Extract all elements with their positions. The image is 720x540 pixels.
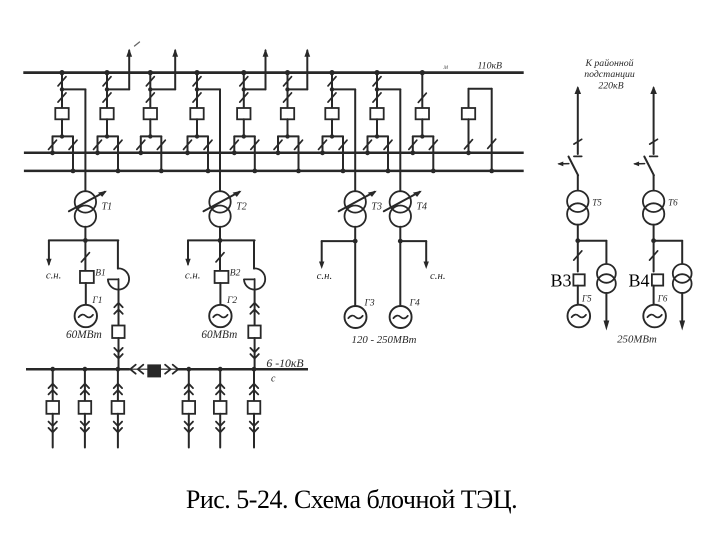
- svg-text:Т4: Т4: [417, 201, 428, 212]
- transformer Т6: [643, 191, 664, 225]
- feeder 2: lower chevrons and outgoing wire: [81, 414, 89, 448]
- disconnector above breaker В3: [574, 241, 582, 272]
- wire to generator Г5: [577, 286, 579, 305]
- cell 4: right drop disconnector to bus B: [204, 136, 212, 173]
- feeder 1: breaker rect: [46, 401, 59, 414]
- svg-text:60МВт: 60МВт: [66, 329, 102, 341]
- auxiliary feeder arrow (с.н.) at Т3: [319, 241, 355, 269]
- label с.н. at Т3: [317, 270, 333, 282]
- generator Г6: [643, 305, 666, 328]
- label 60МВт block 1: [66, 329, 102, 341]
- svg-text:м: м: [443, 63, 449, 71]
- transformer Т3: [339, 191, 377, 227]
- cell 5: disconnectors and wire from 110kV bus: [240, 70, 248, 108]
- cell 6: outgoing 110kV line with up arrow: [288, 49, 311, 90]
- label Г6: [657, 294, 668, 304]
- cell 8: breaker (rect): [370, 108, 383, 119]
- svg-text:подстанции: подстанции: [584, 69, 635, 80]
- cell 3: outgoing 110kV line with up arrow: [150, 49, 178, 90]
- cell 9: breaker (rect): [416, 108, 429, 119]
- cell 2: left drop disconnector to bus A: [94, 136, 102, 155]
- svg-text:В4: В4: [628, 270, 649, 290]
- svg-text:Г5: Г5: [581, 294, 592, 304]
- svg-text:с: с: [271, 374, 276, 385]
- wire В1 to generator Г1: [85, 283, 87, 305]
- label с.н. block 2: [185, 270, 201, 282]
- cell 1: left drop disconnector to bus A: [49, 136, 57, 155]
- label 250МВт: [617, 333, 657, 345]
- svg-text:с.н.: с.н.: [430, 270, 446, 282]
- bus B (second 6-10kV busbar): [24, 170, 524, 173]
- branch to unit auxiliary transformer, block 1: [578, 241, 607, 265]
- svg-text:с.н.: с.н.: [185, 270, 201, 282]
- svg-text:В3: В3: [550, 270, 571, 290]
- breaker В1 (rect): [80, 271, 94, 283]
- cell 6: right drop disconnector to bus B: [295, 136, 303, 173]
- cell 2: outgoing 110kV line with up arrow: [107, 49, 132, 90]
- svg-text:К районной: К районной: [584, 58, 633, 69]
- cell 1: right drop disconnector to bus B: [69, 136, 77, 173]
- generator Г5: [568, 305, 591, 328]
- wire 110kV tap down to Т4: [399, 89, 401, 192]
- label Т1: [102, 201, 113, 212]
- cell 7: fork bar to bus selector: [323, 119, 344, 138]
- cell 10: drop disconnector to bus A: [465, 119, 473, 155]
- wire 110kV tap down to Т2: [219, 89, 221, 192]
- feeder 3: breaker rect: [112, 401, 125, 414]
- wire Т3 to generator Г3: [353, 227, 358, 306]
- generator rail of block 1: [49, 238, 118, 243]
- label В1: [95, 268, 106, 278]
- svg-text:Г6: Г6: [657, 294, 668, 304]
- svg-text:Т2: Т2: [236, 201, 247, 212]
- auxiliary feeder arrow (с.н.) block 1: [46, 240, 51, 266]
- svg-text:В2: В2: [230, 268, 241, 278]
- cell 3: disconnectors and wire from 110kV bus: [146, 70, 154, 108]
- auxiliary feeder arrow (с.н.) block 2: [185, 240, 190, 266]
- reactor-leg breaker rect 2: [248, 326, 260, 339]
- svg-text:220кВ: 220кВ: [598, 80, 623, 91]
- cell 8: left drop disconnector to bus A: [364, 136, 372, 155]
- label с.н. block 1: [46, 270, 62, 282]
- cell 2: right drop disconnector to bus B: [114, 136, 122, 173]
- label Г3: [364, 299, 375, 309]
- feeder 4: junction and upper chevrons: [185, 367, 193, 401]
- cell 9: right drop disconnector to bus B: [429, 136, 437, 173]
- cell 6: breaker (rect): [281, 108, 294, 119]
- svg-text:Г3: Г3: [364, 299, 375, 309]
- cell 4: disconnectors and wire from 110kV bus: [193, 70, 201, 108]
- cell 4: left drop disconnector to bus A: [184, 136, 192, 155]
- cell 7: left drop disconnector to bus A: [319, 136, 327, 155]
- label Г4: [409, 299, 420, 309]
- disconnector (open blade with trip arrow), block 1: [557, 156, 581, 175]
- stray mark near 110kV label: [443, 63, 449, 71]
- wire Т4 to generator Г4: [398, 227, 403, 306]
- cell 3: right drop disconnector to bus B: [157, 136, 165, 173]
- label Т3: [371, 201, 382, 212]
- cell 8: disconnectors and wire from 110kV bus: [373, 70, 381, 108]
- cell 1: breaker (rect): [55, 108, 68, 119]
- feeder 5: junction and upper chevrons: [216, 367, 224, 401]
- cell 9: disconnectors and wire from 110kV bus: [418, 70, 426, 108]
- cell 4: fork bar to bus selector: [188, 119, 209, 138]
- generator Г3: [345, 306, 367, 328]
- wire Т1 to generator rail: [84, 227, 86, 241]
- cell 1: fork bar to bus selector: [53, 119, 74, 138]
- cell 5: right drop disconnector to bus B: [251, 136, 259, 173]
- generator Г2 (circle with tilde): [209, 305, 231, 327]
- wire blade to transformer Т5: [577, 175, 579, 191]
- svg-text:Г2: Г2: [226, 296, 237, 306]
- cell 7: breaker (rect): [325, 108, 338, 119]
- cell 9: left drop disconnector to bus A: [409, 136, 417, 155]
- wire blade to transformer Т6: [653, 175, 655, 191]
- reactor-leg breaker rect 1: [112, 326, 124, 339]
- label В4 (typed): [628, 270, 649, 290]
- feeder 6: breaker rect: [248, 401, 261, 414]
- cell 7: disconnectors and wire from 110kV bus: [328, 70, 336, 108]
- transformer Т5: [567, 191, 588, 225]
- generator rail of block 2: [188, 238, 255, 243]
- label 120-250МВт: [352, 334, 417, 346]
- label Т2: [236, 201, 247, 212]
- feeder 2: junction and upper chevrons: [81, 367, 89, 401]
- cell 1: disconnectors and wire from 110kV bus: [58, 70, 66, 108]
- label К районной подстанции 220кВ: [584, 58, 635, 91]
- wire rail corner down to reactor 1: [117, 240, 119, 268]
- feeder 3: junction and upper chevrons: [114, 367, 122, 401]
- svg-text:Г1: Г1: [91, 296, 102, 306]
- unit auxiliary transformer, block 1: [597, 264, 616, 293]
- breaker В3 (rect): [573, 274, 584, 285]
- caption Рис. 5-24: [186, 485, 517, 514]
- label 110kV: [478, 61, 503, 72]
- label Г1: [91, 296, 102, 306]
- breaker В4 (rect): [652, 274, 663, 285]
- disconnector above breaker В4: [650, 241, 658, 272]
- right separable-contact chevrons of section link: [165, 365, 178, 374]
- cell 5: left drop disconnector to bus A: [230, 136, 238, 155]
- cell 2: disconnectors and wire from 110kV bus: [103, 70, 111, 108]
- withdrawable contact chevrons above breaker, leg 2: [250, 290, 258, 326]
- disconnector above breaker В2: [216, 240, 224, 271]
- cell 8: right drop disconnector to bus B: [384, 136, 392, 173]
- auxiliary outgoing arrow, block 2: [679, 293, 685, 331]
- label 6-10кВ: [266, 356, 303, 370]
- cell 3: left drop disconnector to bus A: [137, 136, 145, 155]
- svg-text:Т1: Т1: [102, 201, 113, 212]
- wire rail corner down to reactor 2: [253, 240, 255, 268]
- feeder 5: lower chevrons and outgoing wire: [216, 414, 224, 448]
- wire 110kV tap down to Т1: [84, 89, 86, 192]
- feeder 3: lower chevrons and outgoing wire: [114, 414, 122, 448]
- svg-text:Т3: Т3: [371, 201, 382, 212]
- bus A (first 6-10kV busbar): [24, 152, 524, 155]
- generator Г1 (circle with tilde): [75, 305, 97, 327]
- reactor LR1 (arc with inner L): [108, 268, 129, 289]
- branch to unit auxiliary transformer, block 2: [654, 241, 683, 265]
- withdrawable contact chevrons below breaker, leg 1: [114, 338, 122, 369]
- cell 10 (bus tie): bridge wire over breaker: [469, 89, 496, 174]
- withdrawable contact chevrons above breaker, leg 1: [114, 290, 122, 326]
- withdrawable contact chevrons below breaker, leg 2: [250, 338, 258, 369]
- cell 10: bus-tie breaker (rect): [462, 108, 475, 119]
- feeder 2: breaker rect: [79, 401, 92, 414]
- feeder 1: lower chevrons and outgoing wire: [49, 414, 57, 448]
- cell 6: disconnectors and wire from 110kV bus: [284, 70, 292, 108]
- cell 5: outgoing 110kV line with up arrow: [244, 49, 269, 90]
- svg-text:Рис. 5-24. Схема блочной ТЭЦ.: Рис. 5-24. Схема блочной ТЭЦ.: [186, 485, 517, 514]
- svg-text:110кВ: 110кВ: [478, 61, 503, 72]
- svg-text:В1: В1: [95, 268, 106, 278]
- label 60МВт block 2: [201, 329, 237, 341]
- svg-text:Т6: Т6: [668, 198, 678, 208]
- thin link through sectional reactor: [130, 368, 177, 370]
- cell 5: breaker (rect): [237, 108, 250, 119]
- unit auxiliary transformer, block 2: [673, 264, 692, 293]
- bus 6-10kV right section: [177, 368, 308, 371]
- cell 7: right drop disconnector to bus B: [339, 136, 347, 173]
- sectional reactor (black square): [147, 364, 161, 377]
- cell 8: tap wire to transformer: [377, 88, 400, 90]
- svg-text:6 -10кВ: 6 -10кВ: [266, 356, 303, 370]
- cell 6: fork bar to bus selector: [278, 119, 299, 138]
- label Т5: [592, 198, 602, 208]
- cell 9: fork bar to bus selector: [413, 119, 434, 138]
- auxiliary outgoing arrow, block 1: [604, 293, 610, 331]
- label с.н. at Т4: [430, 270, 446, 282]
- reactor LR2 (arc with inner L): [244, 268, 265, 289]
- left separable-contact chevrons of section link: [130, 365, 143, 374]
- wire to generator Г6: [653, 286, 655, 305]
- cell 5: fork bar to bus selector: [234, 119, 255, 138]
- stray scan tick near first line arrow: [135, 42, 140, 46]
- wire В2 to generator Г2: [219, 283, 221, 305]
- label Г2: [226, 296, 237, 306]
- feeder 5: breaker rect: [214, 401, 227, 414]
- small letter c under 6-10kV bus: [271, 374, 276, 385]
- transformer Т2 (two circles with regulation arrow): [204, 191, 242, 227]
- svg-text:250МВт: 250МВт: [617, 333, 657, 345]
- svg-text:Г4: Г4: [409, 299, 420, 309]
- cell 8: fork bar to bus selector: [368, 119, 389, 138]
- generator Г4: [390, 306, 412, 328]
- label Т6: [668, 198, 678, 208]
- feeder 4: breaker rect: [183, 401, 196, 414]
- svg-text:60МВт: 60МВт: [201, 329, 237, 341]
- svg-text:с.н.: с.н.: [46, 270, 62, 282]
- svg-text:с.н.: с.н.: [317, 270, 333, 282]
- svg-text:Т5: Т5: [592, 198, 602, 208]
- bus W1 110kV: [23, 71, 523, 74]
- disconnector above breaker В1: [81, 240, 89, 271]
- cell 4: breaker (rect): [190, 108, 203, 119]
- disconnector (open blade with trip arrow), block 2: [633, 156, 657, 175]
- wire 110kV tap down to Т3: [354, 89, 356, 192]
- feeder 1: junction and upper chevrons: [49, 367, 57, 401]
- cell 2: fork bar to bus selector: [98, 119, 119, 138]
- label Т4: [417, 201, 428, 212]
- wire Т6 to junction, block 2: [651, 225, 656, 243]
- wire Т5 to junction, block 1: [575, 225, 580, 243]
- cell 3: breaker (rect): [144, 108, 157, 119]
- wire Т2 to generator rail: [219, 227, 221, 241]
- auxiliary feeder arrow (с.н.) at Т4: [400, 241, 429, 269]
- label Г5: [581, 294, 592, 304]
- bus 6-10kV left section: [26, 368, 130, 371]
- transformer Т4: [384, 191, 422, 227]
- transformer Т1 (two circles with regulation arrow): [69, 191, 107, 227]
- cell 2: breaker (rect): [100, 108, 113, 119]
- label В2: [230, 268, 241, 278]
- cell 3: fork bar to bus selector: [141, 119, 162, 138]
- feeder 4: lower chevrons and outgoing wire: [185, 414, 193, 448]
- breaker В2 (rect): [215, 271, 229, 283]
- feeder 6: junction and upper chevrons: [250, 367, 258, 401]
- cell 7: tap wire to transformer: [332, 88, 355, 90]
- svg-text:120 - 250МВт: 120 - 250МВт: [352, 334, 417, 346]
- line to district substation with up arrow, block 1: [574, 86, 582, 154]
- cell 1: tap wire to transformer: [62, 88, 85, 90]
- cell 6: left drop disconnector to bus A: [274, 136, 282, 155]
- label В3 (typed): [550, 270, 571, 290]
- line to district substation with up arrow, block 2: [650, 86, 658, 154]
- cell 4: tap wire to transformer: [197, 88, 220, 90]
- feeder 6: lower chevrons and outgoing wire: [250, 414, 258, 448]
